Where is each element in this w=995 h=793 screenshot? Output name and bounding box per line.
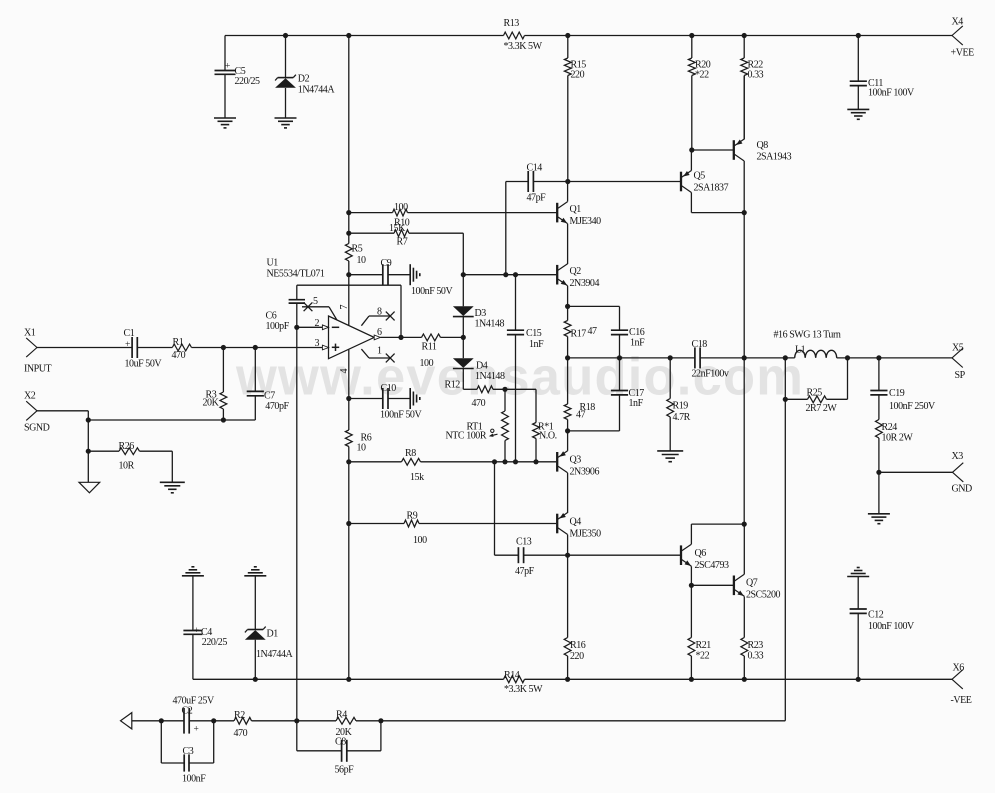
svg-text:Q1: Q1 [570,204,582,215]
op-amp U1 NE5534/TL071 [267,258,375,359]
ground [409,264,411,285]
label Q5 [694,171,729,194]
resistor R16 [564,555,586,679]
pin 5 [302,296,337,320]
svg-text:15k: 15k [410,472,424,483]
svg-text:C15: C15 [526,328,542,339]
svg-text:R12: R12 [445,380,461,391]
resistor R2 [214,710,297,739]
resistor R19 [667,358,691,451]
svg-text:R23: R23 [748,640,764,651]
capacitor C13 [495,462,568,577]
junction [742,355,747,360]
junction [565,33,570,38]
resistor R14 [504,670,544,695]
svg-text:C8: C8 [335,737,346,748]
svg-text:1nF: 1nF [629,398,644,409]
svg-text:C19: C19 [889,388,905,399]
junction [346,272,351,277]
junction [565,553,570,558]
capacitor C10 [349,383,423,421]
svg-text:100nF 50V: 100nF 50V [411,286,453,297]
wire [567,76,569,182]
svg-text:R21: R21 [696,640,712,651]
capacitor C2 470uF 25V [161,696,215,735]
svg-text:SP: SP [955,370,966,381]
wire [193,678,504,680]
wire [137,347,172,349]
svg-text:C14: C14 [527,163,543,174]
svg-text:D1: D1 [267,629,279,640]
svg-text:100pF: 100pF [266,321,290,332]
junction [346,459,351,464]
junction [502,459,507,464]
resistor R8 [349,448,556,483]
resistor R*1 N.O. [533,389,557,462]
junction [294,718,299,723]
wire [525,678,953,680]
ground [214,117,236,119]
svg-text:1nF: 1nF [630,338,645,349]
ground [121,713,132,729]
svg-text:470: 470 [472,398,486,409]
svg-text:D3: D3 [475,308,487,319]
svg-text:100nF 50V: 100nF 50V [380,410,422,421]
svg-text:R5: R5 [352,244,363,255]
svg-text:C9: C9 [381,258,392,269]
junction [845,355,850,360]
diode D4 1N4148 [453,337,505,389]
svg-text:3: 3 [315,338,320,349]
resistor R11 [401,334,463,369]
svg-text:MJE350: MJE350 [570,529,602,540]
wire [88,419,255,421]
junction [565,428,570,433]
wire [743,596,745,637]
wire [505,182,507,275]
svg-text:56pF: 56pF [335,765,355,776]
svg-text:C7: C7 [264,391,275,402]
svg-text:1N4148: 1N4148 [475,319,505,330]
junction [742,210,747,215]
svg-text:R13: R13 [504,18,520,29]
junction [398,335,403,340]
wire [691,212,744,214]
resistor R6 [345,399,371,462]
junction [689,33,694,38]
label Q6 [695,548,730,571]
svg-text:2R7 2W: 2R7 2W [806,403,838,414]
wire [87,411,89,420]
svg-text:1N4744A: 1N4744A [256,649,294,660]
svg-text:C2: C2 [182,706,193,717]
svg-text:2SA1837: 2SA1837 [694,183,729,194]
terminal X6 -VEE [951,663,972,707]
svg-text:Q3: Q3 [570,455,582,466]
svg-text:1nF: 1nF [529,339,544,350]
svg-text:R8: R8 [405,448,416,459]
svg-text:Q7: Q7 [746,578,758,589]
resistor R13 [504,18,543,52]
inductor L1 #16 SWG 13 Turn [774,330,841,358]
junction [346,210,351,215]
transistor Q5 2SA1837 [681,171,691,193]
junction [513,459,518,464]
svg-text:C1: C1 [124,328,135,339]
wire [348,462,350,524]
label Q4 [570,517,602,540]
resistor R18 [564,358,595,431]
svg-text:D2: D2 [298,74,310,85]
terminal X1 INPUT [24,328,52,375]
svg-text:R4: R4 [336,710,347,721]
resistor R20 [688,36,710,81]
svg-text:10R: 10R [119,461,135,472]
capacitor C4 [182,567,227,680]
svg-text:15K: 15K [389,223,406,234]
junction [503,272,508,277]
svg-text:2: 2 [315,318,320,329]
svg-text:MJE340: MJE340 [570,216,602,227]
svg-text:R1: R1 [173,337,184,348]
wire [567,286,569,307]
wire [691,523,744,525]
svg-text:D4: D4 [476,361,488,372]
svg-text:R7: R7 [397,237,408,248]
svg-text:20K: 20K [203,398,220,409]
junction [211,718,216,723]
junction [159,718,164,723]
wire [690,524,692,544]
label Q2 [570,266,600,289]
svg-text:47pF: 47pF [527,193,547,204]
wire [171,451,173,482]
resistor R25 [785,358,847,414]
svg-text:Q4: Q4 [570,517,582,528]
label Q7 [746,578,781,601]
svg-text:X3: X3 [952,451,964,462]
junction [346,677,351,682]
svg-text:470pF: 470pF [265,401,289,412]
wire [381,720,785,722]
wire [462,233,464,275]
svg-text:+: + [225,62,230,72]
resistor R17 [564,306,597,358]
junction [492,459,497,464]
wire [400,285,402,337]
wire [37,347,132,349]
svg-text:R25: R25 [807,388,823,399]
resistor R26 [88,441,172,472]
svg-text:4.7R: 4.7R [673,412,691,423]
svg-text:R19: R19 [673,401,689,412]
junction [283,33,288,38]
svg-text:0.33: 0.33 [748,651,764,662]
junction [346,231,351,236]
svg-text:470: 470 [172,350,186,361]
svg-text:47: 47 [588,326,598,337]
capacitor C9 [349,258,454,297]
wire [879,471,953,473]
svg-text:R14: R14 [504,670,520,681]
junction [876,470,881,475]
wire [567,224,569,264]
capacitor C18 [692,339,729,380]
wire [691,584,734,586]
wire [690,566,692,585]
pin 6 output [374,327,401,340]
junction [221,417,226,422]
svg-text:INPUT: INPUT [24,364,52,375]
svg-text:10: 10 [357,443,367,454]
resistor R24 [876,420,914,473]
svg-text:4: 4 [339,369,350,374]
svg-text:22nF100v: 22nF100v [692,369,729,380]
svg-text:R16: R16 [570,640,586,651]
svg-text:+: + [125,340,130,350]
svg-text:2SC5200: 2SC5200 [746,590,781,601]
junction [253,677,258,682]
svg-text:100nF 100V: 100nF 100V [868,621,915,632]
junction [565,179,570,184]
svg-text:+: + [194,626,199,636]
svg-text:Q2: Q2 [570,266,582,277]
pin 4 [339,350,350,399]
junction [346,521,351,526]
wire [743,213,745,358]
wire [463,274,556,276]
svg-text:C18: C18 [692,339,708,350]
terminal X3 GND [952,451,973,495]
capacitor C11 [850,36,915,110]
resistor R7 [349,223,464,248]
wire [568,357,695,359]
resistor R12 [445,380,537,410]
resistor R3 [203,348,227,421]
junction [742,522,747,527]
svg-text:GND: GND [952,484,973,495]
svg-text:2SC4793: 2SC4793 [695,560,730,571]
svg-text:2N3906: 2N3906 [570,467,600,478]
svg-text:8: 8 [377,307,382,318]
svg-text:X1: X1 [24,328,36,339]
diode D3 1N4148 [453,275,505,338]
capacitor C19 [870,358,936,420]
pin 8 [361,307,394,326]
svg-text:SGND: SGND [24,423,50,434]
zener diode D2 [275,36,335,119]
svg-text:-VEE: -VEE [951,695,972,706]
terminal X4 +VEE [951,17,975,59]
junction [783,355,788,360]
wire [348,36,350,213]
svg-text:10uF 50V: 10uF 50V [125,359,163,370]
junction [221,345,226,350]
junction [742,677,747,682]
junction [856,677,861,682]
svg-text:+: + [194,725,199,735]
resistor R15 [564,36,586,81]
transistor Q4 MJE350 [557,513,567,535]
wire [743,161,745,213]
resistor R9 [349,511,556,547]
svg-text:470uF 25V: 470uF 25V [173,696,215,707]
svg-text:47pF: 47pF [515,566,535,577]
junction [689,677,694,682]
junction [689,583,694,588]
wire [691,76,693,151]
wire [348,213,350,234]
wire [37,410,88,412]
svg-text:220/25: 220/25 [235,76,261,87]
svg-text:6: 6 [377,327,382,338]
pin 1 [361,346,394,363]
junction [378,718,383,723]
svg-text:1N4148: 1N4148 [475,371,505,382]
terminal X5 SP [952,343,966,382]
svg-text:NE5534/TL071: NE5534/TL071 [267,269,325,280]
junction [502,387,507,392]
wire [348,524,350,680]
svg-text:#16 SWG 13 Turn: #16 SWG 13 Turn [774,330,841,341]
svg-text:47: 47 [576,410,586,421]
junction [742,33,747,38]
svg-text:R24: R24 [882,422,898,433]
wire [567,535,569,556]
ground [868,513,890,515]
resistor R22 [741,36,764,81]
svg-text:2SA1943: 2SA1943 [757,152,792,163]
ground [79,482,100,493]
transistor Q8 2SA1943 [734,139,744,161]
wire [567,473,569,513]
junction [253,345,258,350]
pin 7 [339,275,350,326]
svg-text:5: 5 [313,296,318,307]
wire [692,149,734,151]
svg-text:X6: X6 [953,663,965,674]
capacitor C7 [247,348,290,421]
capacitor C16 [568,306,646,358]
junction [783,397,788,402]
svg-text:220: 220 [571,70,585,81]
resistor R4 [297,710,381,739]
svg-text:*22: *22 [696,651,710,662]
capacitor C14 [506,163,568,204]
svg-text:Q5: Q5 [694,171,706,182]
label Q1 [570,204,602,227]
svg-text:C13: C13 [516,537,532,548]
svg-text:0.33: 0.33 [748,70,764,81]
junction [86,417,91,422]
svg-text:N.O.: N.O. [539,431,557,442]
wire [743,76,745,140]
svg-text:220/25: 220/25 [202,637,228,648]
wire [567,431,569,451]
wire [690,193,692,213]
svg-text:10: 10 [357,255,367,266]
junction [565,355,570,360]
capacitor C12 [847,568,915,680]
wire [225,35,504,37]
thermistor RT1 NTC 100R [446,389,509,462]
wire [743,358,745,524]
svg-text:C6: C6 [266,311,277,322]
svg-text:470: 470 [234,728,248,739]
ground [160,481,185,483]
junction [689,147,694,152]
junction [346,33,351,38]
svg-text:NTC 100R: NTC 100R [446,431,487,442]
junction [294,325,299,330]
svg-text:R9: R9 [407,511,418,522]
ground [275,117,297,119]
junction [533,459,538,464]
svg-text:7: 7 [339,305,350,310]
ground [847,108,869,110]
resistor R1 [172,337,192,361]
label Q3 [570,455,600,478]
transistor Q2 2N3904 [557,264,567,286]
ground [657,450,683,452]
svg-text:2N3904: 2N3904 [570,278,600,289]
junction [617,355,622,360]
svg-text:C16: C16 [629,327,645,338]
svg-text:1N4744A: 1N4744A [298,85,336,96]
wire [743,524,745,574]
capacitor C15 [507,275,544,462]
svg-text:U1: U1 [267,258,279,269]
junction [513,272,518,277]
wire [568,554,681,556]
wire [87,420,89,482]
resistor R23 [741,638,764,680]
svg-text:100nF 250V: 100nF 250V [889,401,936,412]
svg-text:100nF: 100nF [182,774,206,785]
pin 2 [297,318,329,330]
svg-text:220: 220 [570,651,584,662]
svg-text:X5: X5 [952,343,964,354]
svg-text:C3: C3 [183,746,194,757]
svg-text:100nF 100V: 100nF 100V [868,88,915,99]
svg-text:1: 1 [377,346,382,357]
junction [876,355,881,360]
wire [525,35,953,37]
zener diode D1 1N4744A [244,567,293,680]
svg-text:Q6: Q6 [695,548,707,559]
svg-text:R17: R17 [571,329,587,340]
svg-text:*22: *22 [695,70,709,81]
transistor Q7 2SC5200 [734,574,744,596]
svg-text:+VEE: +VEE [951,48,975,59]
wire [132,720,162,722]
junction [346,396,351,401]
capacitor C17 [568,358,645,431]
junction [565,677,570,682]
junction [461,335,466,340]
resistor R5 [345,233,366,275]
junction [856,33,861,38]
terminal X2 SGND [24,391,50,434]
wire [878,472,880,514]
wire [690,150,692,171]
svg-text:X2: X2 [24,391,36,402]
wire [567,182,569,202]
resistor R21 [688,585,711,679]
capacitor C3 [161,721,213,785]
wire [700,357,795,359]
pin 3 [192,338,329,350]
